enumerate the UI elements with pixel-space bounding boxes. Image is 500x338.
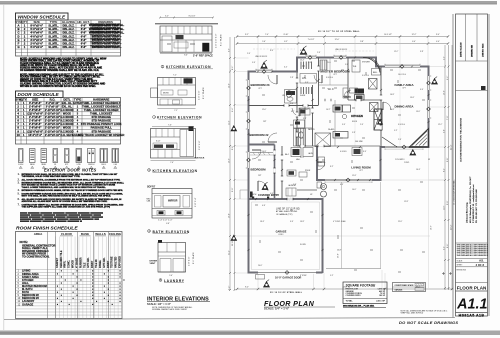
svg-text:4'-6": 4'-6"	[262, 205, 266, 207]
svg-text:SIZE: SIZE	[34, 20, 40, 24]
svg-text:6'-2": 6'-2"	[447, 76, 449, 80]
svg-text:2'-6" 1'-6": 2'-6" 1'-6"	[199, 140, 201, 150]
svg-text:4'-0": 4'-0"	[436, 41, 440, 43]
svg-text:LINE OF 1/2" GYP. BD.: LINE OF 1/2" GYP. BD.	[276, 209, 301, 211]
svg-text:11'-2": 11'-2"	[228, 120, 230, 125]
svg-text:RUBBER: RUBBER	[79, 257, 82, 268]
svg-text:BEDROOM: BEDROOM	[250, 167, 266, 171]
svg-text:6'-0": 6'-0"	[300, 50, 304, 52]
svg-text:11'-2": 11'-2"	[394, 51, 399, 53]
svg-text:6'-2": 6'-2"	[284, 41, 288, 43]
svg-text:9'-0": 9'-0"	[447, 201, 449, 205]
svg-text:3'-6": 3'-6"	[293, 184, 297, 186]
svg-text:8'-4": 8'-4"	[270, 50, 274, 52]
svg-text:11'-0": 11'-0"	[443, 205, 445, 210]
svg-text:7'-6 1/2": 7'-6 1/2"	[308, 39, 315, 41]
svg-text:QTY: QTY	[22, 20, 28, 24]
svg-text:10'-0 CLG: 10'-0 CLG	[398, 74, 406, 76]
svg-text:GLAZING: GLAZING	[62, 20, 76, 24]
svg-text:10'-0": 10'-0"	[228, 158, 230, 163]
svg-text:DRYER: DRYER	[150, 261, 158, 263]
svg-text:TOE KICK: TOE KICK	[195, 158, 205, 160]
svg-text:10'-2": 10'-2"	[326, 109, 331, 111]
svg-text:8" STEP: 8" STEP	[300, 275, 307, 277]
svg-text:2'-8": 2'-8"	[290, 77, 294, 79]
svg-text:16'-8": 16'-8"	[390, 109, 395, 111]
svg-text:Johnson Bros Corp.: Johnson Bros Corp.	[467, 202, 469, 223]
svg-text:WOOD: WOOD	[72, 260, 75, 268]
svg-text:12'-6": 12'-6"	[352, 175, 357, 177]
svg-text:20'-8": 20'-8"	[337, 250, 342, 252]
svg-text:18'-4": 18'-4"	[260, 221, 265, 223]
svg-text:10'-8": 10'-8"	[228, 213, 230, 218]
svg-text:11'-8": 11'-8"	[232, 240, 234, 246]
svg-text:LIN.: LIN.	[302, 77, 307, 80]
svg-text:PORCH: PORCH	[250, 194, 257, 196]
svg-text:LIVING ROOM: LIVING ROOM	[351, 166, 371, 170]
svg-text:9'-0 CLG: 9'-0 CLG	[362, 75, 369, 77]
svg-text:EXTERIOR DOOR NOTES: EXTERIOR DOOR NOTES	[44, 167, 97, 172]
svg-text:TILE W.: TILE W.	[95, 259, 98, 268]
svg-text:DBL SINK: DBL SINK	[355, 141, 364, 143]
svg-text:19'-8": 19'-8"	[300, 221, 305, 223]
svg-text:5'-8": 5'-8"	[447, 158, 449, 162]
svg-text:REVISIONS: REVISIONS	[457, 269, 467, 271]
svg-text:DOOR SCHEDULE: DOOR SCHEDULE	[18, 92, 60, 97]
svg-text:20'-8": 20'-8"	[337, 253, 339, 258]
svg-text:3'-8": 3'-8"	[303, 118, 307, 120]
svg-text:1'-6" 2'-6": 1'-6" 2'-6"	[199, 90, 201, 100]
svg-text:5'-2": 5'-2"	[330, 275, 334, 277]
svg-text:SLOPE: SLOPE	[300, 244, 307, 246]
svg-text:5'-4": 5'-4"	[252, 62, 256, 64]
svg-text:10'-6": 10'-6"	[443, 90, 445, 95]
svg-text:EXPOSED: EXPOSED	[119, 256, 122, 268]
svg-text:SHOWER: SHOWER	[362, 62, 370, 64]
svg-text:8'-6 1/2": 8'-6 1/2"	[189, 16, 196, 18]
svg-text:LINE OF ROOF: LINE OF ROOF	[255, 56, 267, 58]
svg-text:FLOOR: FLOOR	[61, 232, 72, 236]
svg-text:TYPE: TYPE	[50, 20, 58, 24]
svg-text:12'-8": 12'-8"	[404, 201, 409, 203]
svg-text:4'-0": 4'-0"	[340, 184, 344, 186]
svg-text:12'-0": 12'-0"	[335, 39, 340, 41]
svg-text:A1.1: A1.1	[456, 297, 487, 313]
svg-text:2'-8" 4'-6": 2'-8" 4'-6"	[189, 256, 191, 266]
svg-text:FLOOR PLAN: FLOOR PLAN	[457, 285, 487, 290]
svg-text:2'-4": 2'-4"	[290, 103, 294, 105]
svg-text:6'-0 SLD: 6'-0 SLD	[340, 151, 347, 153]
svg-text:GARAGE: GARAGE	[276, 231, 287, 234]
svg-text:VAULTED: VAULTED	[115, 256, 118, 268]
svg-text:SHEET:: SHEET:	[457, 265, 464, 267]
svg-text:8'-6": 8'-6"	[447, 244, 449, 248]
svg-text:SOFFIT: SOFFIT	[147, 187, 156, 189]
svg-text:CARPET: CARPET	[56, 257, 59, 268]
svg-text:PAINT: PAINT	[91, 260, 94, 268]
svg-text:9'-4": 9'-4"	[420, 89, 424, 91]
svg-text:2'-0": 2'-0"	[247, 53, 251, 55]
svg-text:12'-2": 12'-2"	[412, 34, 417, 36]
svg-text:13'-6": 13'-6"	[410, 97, 415, 99]
svg-text:6'-4": 6'-4"	[412, 41, 416, 43]
svg-text:70 SF: 70 SF	[380, 293, 386, 295]
svg-text:3'-0": 3'-0"	[305, 82, 309, 84]
svg-text:4'-2": 4'-2"	[228, 286, 230, 290]
svg-text:6'-0": 6'-0"	[228, 48, 230, 52]
svg-text:CONC.: CONC.	[278, 234, 284, 236]
svg-text:9'-2": 9'-2"	[245, 34, 249, 36]
svg-text:13'-0": 13'-0"	[416, 111, 421, 113]
svg-text:GYP. BD.: GYP. BD.	[87, 257, 90, 268]
svg-text:8'-10": 8'-10"	[284, 34, 289, 36]
svg-text:COVERED PORCH: COVERED PORCH	[346, 293, 363, 295]
svg-text:TEXTURE: TEXTURE	[111, 256, 114, 268]
svg-text:9'-4": 9'-4"	[290, 221, 294, 223]
svg-text:SYM: SYM	[15, 20, 22, 24]
svg-text:16'-0" GARAGE DOOR: 16'-0" GARAGE DOOR	[275, 276, 302, 279]
svg-text:8'-6": 8'-6"	[184, 55, 188, 57]
svg-text:7'-2": 7'-2"	[174, 110, 178, 112]
svg-text:MIRROR: MIRROR	[168, 201, 178, 203]
svg-text:2'-6" REF SPACE: 2'-6" REF SPACE	[193, 55, 213, 58]
svg-text:2'-0": 2'-0"	[360, 124, 364, 126]
svg-text:10'-0": 10'-0"	[352, 189, 357, 191]
svg-text:CUSTOM RESIDENCE FOR: THE JOHN: CUSTOM RESIDENCE FOR: THE JOHNSONS	[461, 117, 463, 162]
svg-text:PAINT: PAINT	[107, 260, 110, 268]
svg-text:9'-0 CLG: 9'-0 CLG	[326, 77, 333, 79]
svg-text:10'-2": 10'-2"	[450, 224, 452, 230]
svg-text:7'-0": 7'-0"	[447, 116, 449, 120]
svg-text:23'-4": 23'-4"	[300, 60, 305, 62]
svg-text:16'-8": 16'-8"	[390, 94, 395, 96]
svg-text:MICRO: MICRO	[163, 93, 170, 95]
svg-text:VENT: VENT	[150, 263, 156, 265]
svg-text:WALLS: WALLS	[95, 232, 106, 236]
svg-text:7'-6": 7'-6"	[168, 124, 172, 126]
svg-text:8'-4": 8'-4"	[443, 168, 445, 172]
svg-text:3'-0": 3'-0"	[156, 141, 161, 143]
svg-text:5'-2": 5'-2"	[443, 56, 445, 60]
svg-text:5'-0": 5'-0"	[232, 188, 234, 192]
svg-text:LINE OF ROOF: LINE OF ROOF	[335, 49, 347, 51]
svg-text:5'-6": 5'-6"	[262, 41, 266, 43]
svg-text:8'-2": 8'-2"	[232, 66, 234, 70]
svg-text:HD. HGT.: HD. HGT.	[77, 20, 89, 24]
svg-text:CERAMIC TILE: CERAMIC TILE	[60, 250, 63, 268]
svg-text:TILE: TILE	[83, 262, 86, 268]
svg-text:2,511 SF: 2,511 SF	[376, 301, 385, 303]
svg-text:10'-5 1/2": 10'-5 1/2"	[384, 34, 392, 36]
svg-text:FIRST FLOOR: FIRST FLOOR	[346, 289, 359, 291]
svg-text:12'-4": 12'-4"	[450, 144, 452, 150]
svg-text:CONC.: CONC.	[404, 162, 410, 164]
svg-text:2'-8" 3'-4": 2'-8" 3'-4"	[195, 197, 197, 207]
svg-text:CEILING: CEILING	[109, 232, 122, 236]
svg-text:5'-0": 5'-0"	[345, 64, 349, 66]
svg-text:AREA: AREA	[34, 232, 43, 236]
svg-text:PANEL: PANEL	[99, 259, 102, 268]
svg-text:GYP. BD.: GYP. BD.	[103, 257, 106, 268]
svg-text:BASE: BASE	[81, 232, 89, 236]
svg-text:W.I.C.: W.I.C.	[328, 88, 335, 91]
svg-text:FAMILY AREA: FAMILY AREA	[394, 83, 413, 87]
svg-text:7'-2": 7'-2"	[173, 75, 177, 77]
svg-text:20'-0": 20'-0"	[258, 265, 263, 267]
svg-text:8'-2": 8'-2"	[330, 166, 334, 168]
svg-text:9'-8": 9'-8"	[443, 129, 445, 133]
svg-text:ROOM FINISH SCHEDULE: ROOM FINISH SCHEDULE	[16, 225, 78, 231]
svg-text:6'-2": 6'-2"	[284, 67, 288, 69]
svg-text:HS81A5 A1B: HS81A5 A1B	[459, 314, 485, 318]
svg-text:9'-0 CLG: 9'-0 CLG	[398, 124, 405, 126]
svg-text:7'-6": 7'-6"	[170, 162, 174, 164]
svg-text:9'-0": 9'-0"	[245, 287, 249, 289]
svg-text:OF EGRESS WINDOW OPENING SHALL: OF EGRESS WINDOW OPENING SHALL NOT BE 44…	[20, 69, 99, 72]
svg-text:16'-0": 16'-0"	[431, 225, 433, 230]
svg-text:7'-4": 7'-4"	[265, 34, 269, 36]
svg-text:SHWR: SHWR	[300, 95, 306, 97]
svg-text:VINYL: VINYL	[64, 260, 67, 268]
svg-text:5'-6": 5'-6"	[169, 275, 173, 277]
svg-text:DO NOT SCALE DRAWINGS: DO NOT SCALE DRAWINGS	[399, 320, 458, 325]
svg-text:NOOK: NOOK	[352, 121, 358, 123]
svg-text:3'-0": 3'-0"	[165, 16, 169, 18]
svg-text:PH. 555-283-1477 FX. 555-283-: PH. 555-283-1477 FX. 555-283-1488	[476, 189, 478, 223]
svg-text:6'-8": 6'-8"	[166, 223, 170, 225]
svg-text:3'-8": 3'-8"	[420, 51, 424, 53]
svg-text:180 SF: 180 SF	[379, 295, 386, 297]
svg-text:2'-6": 2'-6"	[398, 139, 402, 141]
svg-text:MED.: MED.	[147, 199, 152, 201]
svg-text:5'-8": 5'-8"	[352, 132, 356, 134]
svg-text:16'-4": 16'-4"	[416, 169, 421, 171]
svg-text:KITCHEN ELEVATION: KITCHEN ELEVATION	[166, 65, 211, 69]
svg-text:9'-6": 9'-6"	[232, 146, 234, 150]
svg-text:PWDR: PWDR	[305, 170, 311, 172]
svg-text:4" BASE: 4" BASE	[75, 258, 78, 268]
svg-text:5'-0": 5'-0"	[308, 62, 312, 64]
svg-text:9'-4": 9'-4"	[436, 34, 440, 36]
svg-text:2'-6": 2'-6"	[317, 52, 321, 54]
svg-text:8'-0": 8'-0"	[363, 151, 367, 153]
svg-text:BEDROOM #3: BEDROOM #3	[250, 83, 269, 87]
svg-text:1,979 SF: 1,979 SF	[377, 289, 385, 291]
svg-text:13'-6": 13'-6"	[228, 83, 230, 88]
svg-text:DW: DW	[319, 162, 322, 164]
svg-text:11'-2": 11'-2"	[438, 124, 443, 126]
svg-text:1'-4" 2'-0" 1'-4": 1'-4" 2'-0" 1'-4"	[158, 220, 173, 222]
svg-text:3'-0": 3'-0"	[342, 124, 346, 126]
svg-text:WITHIN 24 ARC DOORWAYS WITHIN: WITHIN 24 ARC DOORWAYS WITHIN 18 OF FLOO…	[20, 85, 96, 88]
svg-text:AS.: AS.	[479, 259, 484, 263]
svg-text:22'-0": 22'-0"	[398, 221, 403, 223]
svg-text:BEDROOM #2: BEDROOM #2	[249, 133, 268, 137]
svg-text:5'-2": 5'-2"	[394, 130, 398, 132]
svg-text:WINDOW SCHEDULE: WINDOW SCHEDULE	[18, 15, 67, 20]
svg-text:BELL: BELL	[373, 72, 378, 74]
svg-text:6'-0": 6'-0"	[270, 193, 274, 195]
svg-text:FLOOR PLAN: FLOOR PLAN	[264, 300, 315, 308]
svg-text:DINING AREA: DINING AREA	[395, 104, 414, 108]
svg-text:11'-6": 11'-6"	[262, 109, 267, 111]
svg-text:6'-4": 6'-4"	[232, 108, 234, 112]
svg-text:CONC.: CONC.	[68, 260, 71, 268]
svg-text:21'-4": 21'-4"	[228, 250, 230, 255]
svg-text:4'-2": 4'-2"	[291, 111, 295, 113]
svg-text:1'-6" 2'-6" 3'-0": 1'-6" 2'-6" 3'-0"	[216, 33, 218, 48]
svg-text:9'-8": 9'-8"	[360, 41, 364, 43]
svg-text:SQUARE FOOTAGE: SQUARE FOOTAGE	[346, 283, 377, 287]
svg-text:9'-2": 9'-2"	[443, 246, 445, 250]
